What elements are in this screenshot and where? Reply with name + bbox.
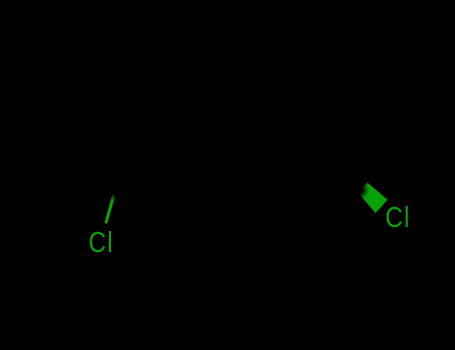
wedge bond C-Cl (right) xyxy=(358,183,387,213)
svg-text:Cl: Cl xyxy=(89,226,114,258)
bond C-Cl (left) xyxy=(106,171,120,222)
svg-text:Cl: Cl xyxy=(385,201,410,233)
